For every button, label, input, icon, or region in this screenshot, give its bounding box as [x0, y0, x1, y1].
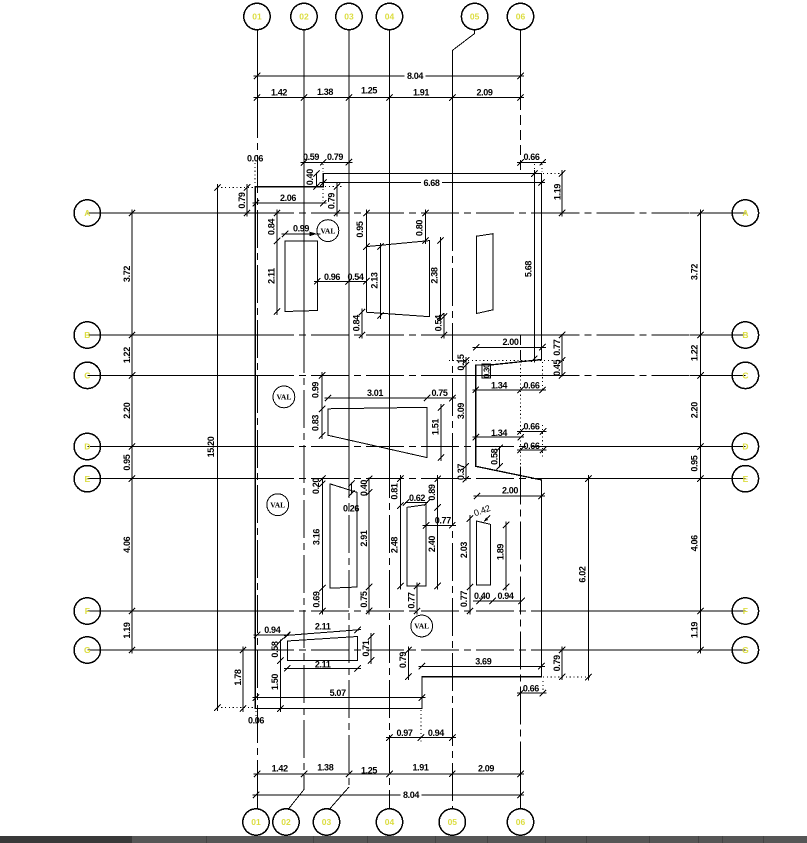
grid line C horizontal: [87, 374, 256, 376]
svg-text:06: 06: [516, 817, 526, 827]
extension dotted bottom right wall: [543, 676, 592, 678]
axis bubble G left: [74, 637, 100, 663]
dim 0.40 shaft5 offset right: [368, 478, 370, 494]
dim 0.89 shaft6 offset right: [437, 475, 439, 511]
duct shaft 7: [477, 521, 491, 585]
grid line 06 vertical: [520, 30, 522, 100]
VAL label 2: [273, 386, 295, 408]
dim 0.79 top left wall: [246, 184, 248, 217]
dim 0.79 below step: [336, 183, 338, 216]
svg-text:04: 04: [385, 817, 395, 827]
grid line B solid segment: [455, 334, 542, 336]
dim 0.40 0.94 shaft7 width: [473, 600, 522, 602]
axis bubble 05 bottom: [439, 809, 465, 835]
grid line A horizontal: [87, 212, 256, 214]
grid line C solid segment: [430, 374, 542, 376]
svg-text:E: E: [84, 474, 90, 484]
svg-text:0.58: 0.58: [270, 641, 280, 657]
svg-text:D: D: [84, 442, 90, 452]
svg-text:01: 01: [251, 817, 261, 827]
axis bubble E left: [74, 466, 100, 492]
grid line 01 vertical: [257, 30, 259, 100]
dim 0.66 top right: [517, 161, 546, 163]
dim 0.84 shaft2 below: [361, 309, 363, 339]
svg-text:0.66: 0.66: [523, 684, 539, 694]
dim 2.40 shaft6 right: [437, 504, 439, 590]
svg-text:4.06: 4.06: [122, 536, 132, 552]
svg-text:0.81: 0.81: [390, 483, 400, 499]
axis bubble F right: [732, 598, 758, 624]
svg-text:VAL: VAL: [414, 622, 429, 631]
svg-text:0.40: 0.40: [474, 591, 490, 601]
svg-text:0.69: 0.69: [312, 591, 322, 607]
svg-text:0.77: 0.77: [459, 591, 469, 607]
svg-text:G: G: [84, 645, 91, 655]
svg-text:0.30: 0.30: [483, 363, 492, 378]
svg-text:0.79: 0.79: [237, 192, 247, 208]
svg-text:03: 03: [344, 12, 354, 22]
dim 0.66 bottom right wall: [517, 692, 546, 694]
dim 0.81 shaft6 offset: [399, 475, 401, 509]
extension dotted bottom left: [217, 707, 254, 709]
svg-text:1.78: 1.78: [233, 669, 243, 685]
dim 0.77 shaft6 below: [416, 583, 418, 615]
svg-text:03: 03: [322, 817, 332, 827]
grid line E horizontal: [87, 478, 256, 480]
svg-text:F: F: [85, 606, 90, 616]
svg-text:8.04: 8.04: [407, 71, 423, 81]
dim 0.99 shaft1 width: [282, 233, 321, 235]
svg-text:1.89: 1.89: [496, 544, 506, 560]
svg-text:1.91: 1.91: [413, 87, 429, 97]
dim 0.20 shaft5 offset: [321, 478, 323, 485]
axis bubble F left: [74, 598, 100, 624]
dim 0.77 shaft6 to grid: [423, 524, 456, 526]
svg-text:2.20: 2.20: [122, 402, 132, 418]
dim 5.07 bottom left: [252, 697, 425, 699]
dim 8.04 top: [254, 75, 525, 77]
dim 1.89 shaft7 right: [505, 521, 507, 590]
svg-text:0.83: 0.83: [311, 415, 321, 431]
svg-text:F: F: [743, 606, 748, 616]
svg-text:1.38: 1.38: [317, 763, 333, 773]
extension dotted 0.66 bottom: [542, 681, 544, 696]
svg-text:0.84: 0.84: [352, 315, 362, 331]
dim 0.84 shaft1 offset: [276, 210, 278, 245]
wall column block: [482, 364, 491, 378]
svg-text:0.37: 0.37: [456, 464, 466, 480]
dim 0.40 step: [316, 173, 318, 188]
extension dotted right wall mid: [542, 362, 544, 392]
dim 2.11 shaft1 height: [276, 237, 278, 315]
dim 0.37 notch bottom: [465, 465, 467, 480]
svg-text:A: A: [742, 208, 748, 218]
svg-text:1.22: 1.22: [122, 347, 132, 363]
dim 2.13 shaft2 height left: [380, 243, 382, 319]
svg-text:2.11: 2.11: [267, 268, 277, 284]
dim 0.54 shaft2 below right: [443, 313, 445, 338]
extension dotted step corner bottom: [420, 710, 422, 742]
axis bubble D right: [732, 433, 758, 459]
dim 1.34 0.66 upper: [472, 389, 546, 391]
svg-text:0.94: 0.94: [264, 625, 280, 635]
duct shaft 5: [330, 484, 357, 588]
bottom taskbar left segment: [0, 836, 132, 843]
building outline wall: [255, 174, 541, 709]
svg-text:1.25: 1.25: [361, 85, 377, 95]
dim chain left: [131, 210, 133, 654]
dim 0.42 leader shaft7: [484, 516, 490, 522]
svg-text:2.00: 2.00: [502, 337, 518, 347]
svg-text:0.66: 0.66: [523, 441, 539, 451]
svg-text:2.38: 2.38: [430, 267, 440, 283]
duct shaft 3: [477, 234, 494, 314]
svg-text:3.16: 3.16: [312, 529, 322, 545]
svg-text:0.96: 0.96: [324, 272, 340, 282]
duct shaft 1: [285, 241, 317, 312]
svg-text:E: E: [743, 474, 749, 484]
dim 0.75 shaft5 below right: [368, 584, 370, 615]
svg-text:6.02: 6.02: [578, 566, 588, 582]
dim 1.19 top right wall: [561, 170, 563, 217]
axis bubble D left: [74, 433, 100, 459]
svg-text:0.89: 0.89: [427, 484, 437, 500]
svg-text:3.72: 3.72: [122, 266, 132, 282]
axis bubble 02 top: [291, 3, 317, 29]
dim 0.83 shaft4 height: [321, 405, 323, 439]
svg-text:2.48: 2.48: [390, 537, 400, 553]
dim 3.69 bottom right: [418, 665, 545, 667]
dim 6.68 top edge: [320, 182, 545, 184]
grid line D horizontal: [87, 446, 256, 448]
svg-text:1.22: 1.22: [690, 345, 700, 361]
dim 0.94 shaft8 offset: [254, 634, 291, 636]
axis bubble 02 bottom: [273, 809, 299, 835]
dim 0.77 shaft7 below: [469, 584, 471, 615]
svg-text:3.09: 3.09: [456, 403, 466, 419]
dim 2.11 shaft8 top slanted: [284, 630, 361, 636]
svg-text:0.95: 0.95: [122, 454, 132, 470]
svg-text:1.34: 1.34: [491, 428, 507, 438]
dim 0.62 shaft6 width: [405, 501, 428, 503]
svg-text:1.25: 1.25: [361, 766, 377, 776]
grid line 04 vertical: [389, 30, 391, 460]
svg-text:0.95: 0.95: [690, 455, 700, 471]
dim 3.16 shaft5 left: [321, 480, 323, 591]
svg-text:C: C: [742, 370, 748, 380]
svg-text:5.07: 5.07: [330, 688, 346, 698]
dim 0.58 at grid D: [499, 447, 501, 468]
axis bubble 03 bottom: [313, 809, 339, 835]
svg-text:01: 01: [252, 12, 262, 22]
svg-text:05: 05: [470, 12, 480, 22]
svg-text:0.54: 0.54: [347, 272, 363, 282]
svg-text:06: 06: [516, 12, 526, 22]
svg-text:0.80: 0.80: [415, 220, 425, 236]
dim 5.68 right wall: [533, 170, 535, 362]
svg-text:2.09: 2.09: [476, 87, 492, 97]
dim 0.59 0.79 top: [301, 161, 353, 163]
svg-text:0.62: 0.62: [409, 493, 425, 503]
svg-text:B: B: [84, 330, 90, 340]
axis bubble B right: [732, 322, 758, 348]
svg-text:0.77: 0.77: [552, 339, 562, 355]
svg-text:15.20: 15.20: [206, 436, 216, 457]
axis bubble A left: [74, 200, 100, 226]
svg-text:2.91: 2.91: [359, 530, 369, 546]
axis bubble 04 bottom: [376, 809, 402, 835]
dim 2.48 shaft6 left: [399, 502, 401, 589]
dim 1.78 bottom left: [242, 647, 244, 713]
bottom taskbar: [0, 836, 807, 843]
dim 2.11 shaft8 bottom: [284, 667, 361, 669]
dim 3.09 notch wall: [465, 357, 467, 470]
dim 15.20 overall: [216, 184, 218, 711]
svg-text:02: 02: [299, 12, 309, 22]
duct shaft 8: [287, 637, 357, 661]
dim chain bottom segments: [254, 773, 525, 775]
svg-text:C: C: [84, 370, 90, 380]
duct shaft 4: [328, 407, 427, 457]
dim 0.99 shaft4 offset: [321, 372, 323, 412]
svg-text:0.79: 0.79: [398, 652, 408, 668]
svg-text:8.04: 8.04: [403, 790, 419, 800]
svg-text:0.77: 0.77: [435, 516, 451, 526]
svg-text:0.75: 0.75: [431, 388, 447, 398]
svg-text:2.09: 2.09: [478, 763, 494, 773]
svg-text:0.66: 0.66: [523, 380, 539, 390]
svg-text:0.77: 0.77: [407, 592, 417, 608]
svg-text:1.50: 1.50: [270, 674, 280, 690]
dim 0.96 shaft1 to grid: [314, 280, 352, 282]
grid line 05 top leader: [474, 30, 476, 34]
grid line B horizontal: [87, 334, 256, 336]
svg-text:0.75: 0.75: [359, 591, 369, 607]
svg-text:2.00: 2.00: [502, 486, 518, 496]
dim 1.34 lower: [472, 436, 524, 438]
svg-text:6.68: 6.68: [423, 178, 439, 188]
svg-text:D: D: [742, 442, 748, 452]
svg-text:2.11: 2.11: [315, 660, 331, 670]
axis bubble C right: [732, 362, 758, 388]
dim 0.80 shaft2 offset right: [425, 210, 427, 245]
svg-text:0.58: 0.58: [490, 448, 500, 464]
svg-text:1.91: 1.91: [412, 763, 428, 773]
dim 1.50 shaft8 below: [279, 657, 281, 712]
svg-text:1.38: 1.38: [317, 87, 333, 97]
leader arrow to VAL 1: [310, 232, 318, 237]
svg-text:1.42: 1.42: [272, 763, 288, 773]
svg-text:2.06: 2.06: [280, 193, 296, 203]
svg-text:2.11: 2.11: [315, 622, 331, 632]
grid line 03 bottom leader: [330, 787, 349, 809]
dim 0.71 shaft8 right: [370, 633, 372, 664]
taskbar separators: [206, 836, 207, 843]
dim 0.77 right wall: [561, 334, 563, 361]
svg-text:0.94: 0.94: [428, 728, 444, 738]
svg-text:0.95: 0.95: [355, 221, 365, 237]
dim 0.97 0.94 bottom: [386, 737, 456, 739]
dim 0.79 right bottom: [561, 647, 563, 681]
axis bubble 06 top: [507, 3, 533, 29]
dim 6.02 right: [587, 475, 589, 681]
svg-text:3.72: 3.72: [690, 264, 700, 280]
svg-text:0.45: 0.45: [552, 360, 562, 376]
axis bubble 05 top: [461, 3, 487, 29]
dim chain top segments: [254, 97, 525, 99]
dim 2.00 notch top: [473, 346, 546, 348]
extension dotted wall right top: [541, 164, 543, 172]
dim 3.01 0.75 shaft4: [325, 397, 456, 399]
dim 0.66 mid b: [517, 449, 547, 451]
svg-text:0.66: 0.66: [523, 152, 539, 162]
axis bubble 04 top: [376, 3, 402, 29]
grid line 03 vertical: [348, 30, 350, 460]
svg-text:VAL: VAL: [276, 393, 291, 402]
svg-text:0.40: 0.40: [305, 169, 315, 185]
svg-text:5.68: 5.68: [524, 261, 534, 277]
svg-text:VAL: VAL: [320, 226, 335, 235]
dim 2.06 top left: [252, 202, 326, 204]
dim 0.69 shaft5 below: [321, 585, 323, 615]
dim 2.00 notch bottom: [474, 495, 545, 497]
svg-text:0.06: 0.06: [247, 154, 263, 164]
svg-text:3.69: 3.69: [475, 657, 491, 667]
svg-text:0.71: 0.71: [361, 640, 371, 656]
svg-text:0.79: 0.79: [552, 655, 562, 671]
svg-text:2.20: 2.20: [690, 402, 700, 418]
svg-text:0.79: 0.79: [327, 193, 337, 209]
duct shaft 6: [407, 505, 426, 586]
svg-text:0.06: 0.06: [248, 716, 264, 726]
dim 0.79 bottom step: [408, 647, 410, 681]
dim 0.66 mid a: [517, 430, 547, 432]
extension dotted step corner: [322, 164, 324, 172]
VAL label 3: [267, 494, 289, 516]
VAL label 1: [317, 220, 339, 242]
axis bubble B left: [74, 322, 100, 348]
svg-text:1.19: 1.19: [553, 184, 563, 200]
VAL label 4: [411, 615, 433, 637]
dim chain right: [700, 210, 702, 654]
svg-text:3.01: 3.01: [367, 388, 383, 398]
svg-text:0.54: 0.54: [434, 315, 444, 331]
dim 8.04 bottom: [253, 794, 525, 796]
dim 1.51 shaft4 right: [440, 404, 442, 461]
svg-text:0.66: 0.66: [523, 422, 539, 432]
duct shaft 2: [366, 241, 429, 317]
svg-text:0.94: 0.94: [497, 591, 513, 601]
axis bubble G right: [732, 637, 758, 663]
svg-text:0.99: 0.99: [311, 382, 321, 398]
svg-text:0.97: 0.97: [396, 728, 412, 738]
svg-text:2.40: 2.40: [427, 536, 437, 552]
dim 0.15 notch: [465, 359, 467, 366]
svg-text:0.79: 0.79: [327, 152, 343, 162]
dim 0.58 shaft8 left: [279, 640, 281, 663]
svg-text:4.06: 4.06: [690, 535, 700, 551]
svg-text:2.13: 2.13: [370, 272, 380, 288]
dim 0.45 right wall: [561, 359, 563, 376]
dim 0.95 shaft2 offset: [365, 210, 367, 251]
extension dotted top right wall: [543, 173, 566, 175]
dotted reference line y360: [449, 359, 566, 361]
axis bubble 06 bottom: [507, 809, 533, 835]
svg-text:0.26: 0.26: [343, 504, 359, 514]
svg-text:2.03: 2.03: [459, 542, 469, 558]
grid line G horizontal: [87, 649, 256, 651]
svg-text:1.42: 1.42: [271, 88, 287, 98]
svg-text:1.19: 1.19: [690, 622, 700, 638]
svg-text:0.84: 0.84: [267, 219, 277, 235]
axis bubble 03 top: [336, 3, 362, 29]
svg-text:04: 04: [385, 12, 395, 22]
svg-text:G: G: [742, 645, 749, 655]
svg-text:0.59: 0.59: [303, 152, 319, 162]
svg-text:1.19: 1.19: [122, 622, 132, 638]
extension dotted top left: [217, 186, 254, 188]
dim 0.26 shaft5 slant: [351, 483, 353, 495]
svg-text:02: 02: [281, 817, 291, 827]
extension dotted at y186: [325, 186, 342, 188]
svg-text:B: B: [742, 330, 748, 340]
axis bubble C left: [74, 362, 100, 388]
grid line 05 vertical: [451, 51, 453, 214]
svg-text:05: 05: [448, 817, 458, 827]
svg-text:A: A: [84, 208, 90, 218]
svg-text:1.51: 1.51: [431, 419, 441, 435]
dim 0.54 grid to shaft2: [349, 280, 367, 282]
svg-text:1.34: 1.34: [491, 380, 507, 390]
dim 2.91 shaft5 right: [368, 489, 370, 591]
dim 2.38 shaft2 height right: [440, 237, 442, 320]
grid line 02 vertical: [303, 30, 305, 335]
svg-text:0.99: 0.99: [293, 224, 309, 234]
grid line 02 bottom leader: [289, 790, 305, 809]
dim 2.03 shaft7 left: [469, 515, 471, 590]
svg-text:VAL: VAL: [270, 500, 285, 509]
axis bubble E right: [732, 466, 758, 492]
grid line F horizontal: [87, 610, 256, 612]
axis bubble 01 top: [244, 3, 270, 29]
axis bubble 01 bottom: [243, 809, 269, 835]
axis bubble A right: [732, 200, 758, 226]
